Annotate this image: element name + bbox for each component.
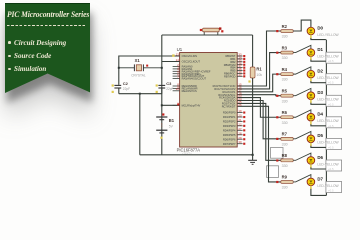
label frame of LED D7 [326,182,342,193]
svg-text:330: 330 [282,142,288,146]
ground rail wire below PIC [140,154,254,156]
svg-text:RD4/PSP4: RD4/PSP4 [223,128,236,132]
svg-text:D1: D1 [317,47,323,52]
LED D0 (LED-YELLOW) [307,25,323,38]
svg-text:OSC1/CLKIN: OSC1/CLKIN [182,54,198,58]
svg-text:RD1/PSP1: RD1/PSP1 [223,115,236,119]
LED D7 value label [317,184,339,193]
svg-text:D4: D4 [317,112,323,117]
svg-text:LED-YELLOW: LED-YELLOW [317,98,339,102]
wire OSC1 pin to crystal left leg [119,56,180,85]
wire resistor R9 to LED D7 [293,175,311,182]
wire from PIC pin to resistor R2 [237,30,281,86]
LED D3 value label [317,98,339,107]
svg-text:D3: D3 [317,90,323,95]
resistor R4 330 [281,67,293,82]
svg-text:21: 21 [238,118,242,122]
svg-text:LED-YELLOW: LED-YELLOW [317,119,339,123]
wire from PIC pin to resistor R4 [237,73,281,92]
svg-text:26: 26 [238,103,242,107]
crystal X1 [118,58,163,78]
capacitor C3 22pF [156,81,174,94]
label frame of LED D2 [326,74,342,85]
svg-text:R3: R3 [282,45,288,50]
resistor R7 330 [281,132,293,147]
wire LED D7 cathode to bus [311,189,327,196]
svg-text:22pF: 22pF [123,87,130,91]
svg-text:+0.5: +0.5 [328,124,334,128]
LED D3 (LED-YELLOW) [307,90,323,103]
svg-text:R5: R5 [282,89,288,94]
PIC right pins RC0-RC7 (connected to LED rows) [213,83,242,109]
resistor R2 330 [281,24,293,39]
wire resistor R6 to LED D4 [293,110,311,117]
svg-text:RC7/RX/DT: RC7/RX/DT [222,104,236,108]
svg-text:40: 40 [238,73,242,77]
wire resistor R5 to LED D3 [293,88,311,95]
svg-text:D5: D5 [317,133,323,138]
wire from PIC pin to resistor R3 [237,52,281,89]
LED D5 value label [317,141,339,150]
battery B1 [156,113,175,138]
capacitor C2 22pF [112,81,131,94]
LED D1 value label [317,55,339,64]
svg-text:10k: 10k [256,73,262,77]
label frame of LED D3 [326,95,342,106]
wire from PIC pin to resistor R8 [237,103,281,161]
wire LED D6 cathode to bus [311,167,326,169]
svg-text:+0.5: +0.5 [328,102,334,106]
title banner ribbon [0,0,96,110]
label frame of LED D1 [326,52,342,63]
label frame of resistor R9 [267,166,279,178]
svg-text:MCLR/Vpp/THV: MCLR/Vpp/THV [182,103,201,107]
svg-text:330: 330 [282,164,288,168]
label frame of LED D5 [326,138,342,149]
PIC right pins RD0-RD7 with red state dots [223,109,245,146]
svg-text:LED-YELLOW: LED-YELLOW [317,141,339,145]
svg-text:+0.5: +0.5 [328,81,334,85]
resistor R3 330 [281,45,293,60]
svg-text:RA5/AN4/SS/C2OUT: RA5/AN4/SS/C2OUT [182,77,207,81]
LED D2 value label [317,76,339,85]
wire resistor R2 to LED D0 [293,20,311,31]
svg-text:LED-YELLOW: LED-YELLOW [317,33,339,37]
LED D2 (LED-YELLOW) [307,69,323,82]
LED D1 (LED-YELLOW) [307,47,323,60]
cathode bus wire (right vertical) [325,40,327,196]
label frame of LED D4 [326,117,342,128]
svg-text:RD5/PSP5: RD5/PSP5 [223,133,236,137]
wire LED D5 cathode to bus [311,146,326,148]
wire from PIC pin to resistor R7 [237,101,281,141]
wire from PIC pin to resistor R5 [237,95,281,97]
wire MCLR pin [161,103,180,106]
svg-text:U1: U1 [177,47,183,52]
svg-text:RD7/PSP7: RD7/PSP7 [223,142,236,146]
svg-text:+0.5: +0.5 [328,167,334,171]
svg-text:RD6/PSP6: RD6/PSP6 [223,137,236,141]
svg-text:C3: C3 [166,81,172,86]
svg-text:RD0/PSP0: RD0/PSP0 [223,111,236,115]
LED D0 value label [317,33,339,37]
PIC left pin stubs, numbers and names [173,52,211,107]
resistor R1 10k (vertical) [248,35,262,155]
svg-text:LED-YELLOW: LED-YELLOW [317,184,339,188]
LED D7 (LED-YELLOW) [307,176,323,189]
wire resistor R8 to LED D6 [293,153,311,160]
svg-text:330: 330 [282,121,288,125]
svg-text:330: 330 [282,35,288,39]
wire caps rail down to ground rail [139,94,141,155]
svg-text:X1: X1 [135,58,141,63]
svg-text:R6: R6 [282,110,288,115]
wire from PIC pin to resistor R9 [237,106,281,183]
LED D6 (LED-YELLOW) [307,155,323,168]
svg-text:CRYSTAL: CRYSTAL [131,73,146,77]
svg-text:330: 330 [282,99,288,103]
svg-text:LED-YELLOW: LED-YELLOW [317,76,339,80]
resistor R8 330 [281,153,293,168]
svg-text:+0.5: +0.5 [328,189,334,193]
svg-text:28: 28 [238,131,242,135]
yellow state dot at OSC pins [172,54,174,56]
LED D4 value label [317,119,339,128]
svg-text:R9: R9 [282,175,288,180]
svg-text:LED-YELLOW: LED-YELLOW [317,162,339,166]
wire LED D2 cathode to bus [311,81,326,83]
label frame of LED D6 [326,160,342,171]
svg-text:330: 330 [282,78,288,82]
svg-text:330: 330 [282,56,288,60]
svg-text:20: 20 [238,114,242,118]
svg-text:22: 22 [238,122,242,126]
wire LED D1 cathode to bus [311,60,326,62]
LED D6 value label [317,162,339,171]
wire resistor R7 to LED D5 [293,132,311,139]
svg-text:OSC2/CLKOUT: OSC2/CLKOUT [182,60,201,64]
svg-text:5V: 5V [169,124,174,128]
svg-text:22pF: 22pF [166,87,173,91]
svg-text:B1: B1 [169,118,175,123]
svg-text:27: 27 [238,127,242,131]
wire from PIC pin to resistor R6 [237,98,281,119]
wire resistor R3 to LED D1 [293,45,311,52]
resistor R9 330 [281,175,293,190]
PIC right pins RB0-RB7 with red state dots [224,53,246,79]
wire LED D4 cathode to bus [311,124,326,126]
resistor R6 330 [281,110,293,125]
svg-text:D7: D7 [317,176,323,181]
svg-text:RB7/PGD: RB7/PGD [224,74,236,78]
svg-text:10: 10 [176,87,180,91]
LED D4 (LED-YELLOW) [307,112,323,125]
svg-text:29: 29 [238,136,242,140]
svg-text:RD3/PSP3: RD3/PSP3 [223,124,236,128]
wire OSC2 pin to crystal right leg [162,61,180,63]
wire capacitor common rail [119,93,162,95]
svg-text:R1: R1 [256,66,262,71]
wire resistor R4 to LED D2 [293,67,311,74]
svg-text:RE2/AN7/CS: RE2/AN7/CS [182,89,197,93]
svg-text:RD2/PSP2: RD2/PSP2 [223,120,236,124]
wire LED D0 cathode to bus [311,38,326,40]
left rail wire (top rail down to ground rail) [161,35,163,155]
svg-text:30: 30 [238,140,242,144]
svg-text:+0.5: +0.5 [328,145,334,149]
push button S1 on top rail [200,27,224,35]
svg-text:R8: R8 [282,153,288,158]
svg-text:LED-YELLOW: LED-YELLOW [317,55,339,59]
svg-text:R4: R4 [282,67,288,72]
wire LED D3 cathode to bus [311,103,326,105]
svg-text:R7: R7 [282,132,288,137]
LED D5 (LED-YELLOW) [307,133,323,146]
microcontroller U1 PIC16F877A [177,47,238,156]
svg-text:D2: D2 [317,69,323,74]
ground symbol [248,155,257,165]
resistor R5 330 [281,89,293,104]
svg-text:D0: D0 [317,25,323,30]
svg-text:R2: R2 [282,24,288,29]
svg-text:330: 330 [282,186,288,190]
label frame of resistor R8 [271,148,284,159]
svg-text:D6: D6 [317,155,323,160]
svg-text:C2: C2 [123,81,129,86]
svg-text:+0.5: +0.5 [328,59,334,63]
svg-text:19: 19 [238,109,242,113]
VDD top rail wire [162,34,253,36]
